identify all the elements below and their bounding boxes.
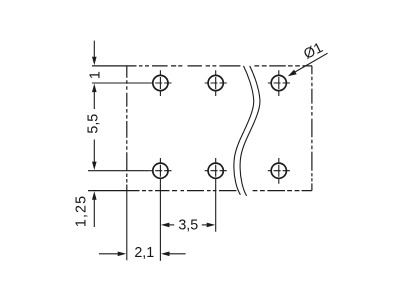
arrow dim1 down (92, 57, 97, 66)
outline bottom edge (phantom dash-dot-dot line, with dimension extension merged at left) (88, 190, 312, 192)
extension line row 2 (88, 170, 149, 172)
arrow 1,25 up (92, 191, 97, 200)
hole A2 circle (top-middle) (208, 75, 223, 90)
hole A1 circle (top-left) (153, 75, 168, 90)
svg-text:5,5: 5,5 (85, 114, 101, 134)
extension line row 1 (92, 82, 149, 84)
outline left edge (phantom dash-dot-dot line) (126, 66, 128, 191)
svg-text:1: 1 (87, 71, 103, 79)
dim 3,5 left tail (168, 224, 174, 226)
dim 5,5 line upper (93, 90, 95, 109)
arrow 5,5 down (92, 162, 97, 171)
svg-text:2,1: 2,1 (134, 245, 154, 261)
svg-text:3,5: 3,5 (178, 218, 198, 234)
arrow 2,1 left (161, 252, 170, 257)
hole A3 centerlines (278, 70, 280, 96)
extension line column 1 below (159, 184, 161, 261)
hole A3 circle (top-right) (271, 75, 286, 90)
arrow 3,5 left (161, 223, 170, 228)
arrow 2,1 right (118, 252, 127, 257)
hole B3 centerlines (278, 158, 280, 184)
dim 1 leader stem (93, 41, 95, 58)
break line wavy curve 1 (234, 66, 254, 195)
dim 1,25 stem (93, 198, 95, 227)
hole B1 circle (bottom-left) (153, 163, 168, 178)
arrow 3,5 right (207, 223, 216, 228)
dim 3,5 right tail (202, 224, 208, 226)
extension line column 2 below (215, 184, 217, 232)
outline right edge (phantom dash-dot-dot line) (311, 66, 313, 191)
outline top edge (phantom dash-dot-dot line, with dimension extension merged at left) (92, 65, 312, 67)
hole B3 circle (bottom-right) (271, 163, 286, 178)
arrow 5,5 up (92, 84, 97, 93)
break line wavy curve 2 (240, 66, 260, 196)
dia leader line (295, 53, 327, 72)
svg-text:Ø1: Ø1 (301, 40, 325, 63)
hole B1 centerlines (159, 158, 161, 184)
svg-text:1,25: 1,25 (74, 195, 90, 227)
dim 2,1 right tail (169, 253, 186, 255)
hole B2 centerlines (215, 158, 217, 184)
hole B2 circle (bottom-middle) (208, 163, 223, 178)
hole A1 centerlines (159, 70, 161, 96)
extension line left edge below (126, 191, 128, 261)
dim 2,1 left tail (99, 253, 119, 255)
dim 5,5 line lower (93, 140, 95, 164)
arrow dia leader (288, 70, 297, 77)
hole A2 centerlines (215, 70, 217, 96)
